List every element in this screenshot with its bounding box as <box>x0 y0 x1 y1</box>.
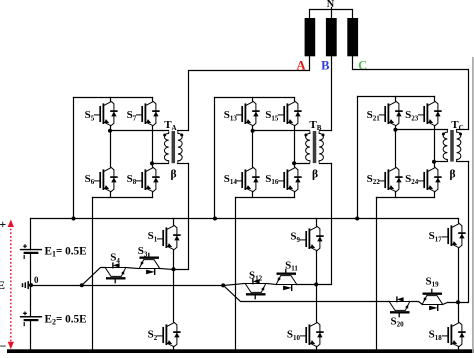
wire cell A bottom rail <box>93 197 153 199</box>
transistor S12 <box>245 279 266 299</box>
svg-text:S15: S15 <box>265 109 279 122</box>
svg-text:S14: S14 <box>224 173 238 186</box>
wire phase A to transformer TA secondary <box>189 57 310 131</box>
wire leg1 lower <box>173 270 175 322</box>
wire cell B positive rail <box>215 97 295 99</box>
wire TB secondary bottom to leg2 midpoint <box>317 164 332 285</box>
wire leg2 mid stub <box>316 251 318 285</box>
transistor S22 <box>380 167 402 192</box>
transformer TC secondary winding <box>457 131 461 161</box>
wire cell A left leg top stub <box>110 98 112 101</box>
transformer TC secondary polarity dot <box>459 133 462 136</box>
svg-text:S20: S20 <box>390 315 404 328</box>
wire node0 to S20 (diagonal+run) <box>224 286 390 302</box>
wire TC secondary top lead <box>457 129 469 131</box>
junction cell B on DC rail <box>213 217 217 221</box>
wire leg3 bottom stub <box>458 347 460 351</box>
wire DC left bus upper <box>30 219 32 250</box>
wire cell C bottom rail <box>377 197 435 199</box>
wire neutral bus <box>310 8 353 19</box>
transistor S19 <box>422 289 443 310</box>
wire cell C right leg middle <box>434 127 436 167</box>
wire cell C negative return to bottom bus <box>376 198 378 350</box>
svg-text:S9: S9 <box>290 231 300 244</box>
svg-text:S3: S3 <box>138 245 148 258</box>
svg-text:S7: S7 <box>127 109 137 122</box>
junction S4 branch <box>80 283 84 287</box>
transistor S5 <box>95 101 117 126</box>
wire TB secondary bottom lead <box>320 163 332 165</box>
transistor S21 <box>380 101 402 126</box>
junction leg3 midpoint <box>456 300 460 304</box>
transistor S3 <box>139 253 160 274</box>
wire cell B negative return to bottom bus <box>235 198 237 350</box>
transistor S16 <box>279 167 301 192</box>
wire leg2 lower <box>316 285 318 322</box>
wire cell C left leg bottom stub <box>395 193 397 198</box>
svg-text:TA: TA <box>164 119 176 132</box>
wire cell B bottom rail <box>236 197 295 199</box>
junction cell A left midpoint <box>108 129 112 133</box>
wire leg1 top stub <box>173 219 175 225</box>
capacitor E1 <box>21 245 42 259</box>
ground symbol node 0 <box>23 282 32 288</box>
svg-text:S16: S16 <box>265 173 279 186</box>
transformer TC primary winding <box>443 131 447 161</box>
transistor S2 <box>158 322 180 347</box>
wire cell A midpoint to primary top <box>111 130 169 132</box>
transistor S17 <box>443 223 465 248</box>
junction cell B left midpoint <box>251 129 255 133</box>
svg-text:S17: S17 <box>429 230 443 243</box>
wire leg2 bottom stub <box>316 347 318 351</box>
transistor S7 <box>137 101 159 126</box>
transistor S1 <box>158 225 180 250</box>
transistor S8 <box>137 167 159 192</box>
wire TC secondary bottom lead <box>457 161 469 163</box>
transformer TB primary winding <box>306 132 310 162</box>
wire TA secondary top lead <box>178 130 189 132</box>
svg-text:N: N <box>327 0 335 10</box>
svg-text:β: β <box>312 169 318 181</box>
wire cell A left leg bottom stub <box>110 193 112 198</box>
svg-text:S21: S21 <box>367 109 381 122</box>
wire S12 to S11 <box>267 284 277 285</box>
transformer TA primary winding <box>164 132 168 162</box>
wire DC left bus lower <box>30 321 32 351</box>
wire cell C left leg top stub <box>395 97 397 101</box>
junction cell A on DC rail <box>72 217 76 221</box>
svg-text:S22: S22 <box>367 173 381 186</box>
svg-text:S19: S19 <box>425 275 439 288</box>
transformer TB secondary polarity dot <box>322 134 325 137</box>
load winding phase A <box>305 18 316 56</box>
transistor S4 <box>105 263 126 283</box>
figure border (right, gray) <box>472 57 474 353</box>
svg-text:TC: TC <box>451 119 463 132</box>
wire S4 to S3 <box>126 268 139 269</box>
wire TB secondary top lead <box>320 130 332 132</box>
wire cell A primary bottom <box>153 163 169 165</box>
wire cell A right leg bottom stub <box>152 193 154 198</box>
wire cell B right leg bottom stub <box>294 193 296 198</box>
wire cell A right leg top stub <box>152 98 154 101</box>
wire cell C midpoint to primary top <box>396 129 448 131</box>
wire S3 to leg1 midpoint <box>160 269 174 270</box>
wire S19 to leg3 midpoint <box>443 303 459 305</box>
wire cell B right leg middle <box>294 127 296 167</box>
junction cell B right leg primary bottom <box>292 161 296 165</box>
junction cell C right leg primary bottom <box>432 160 436 164</box>
junction cell C on DC rail <box>355 217 359 221</box>
wire cell A positive rail <box>74 97 153 99</box>
svg-text:S10: S10 <box>287 329 301 342</box>
transformer TB secondary winding <box>319 132 323 162</box>
wire DC left bus middle <box>30 253 32 317</box>
svg-text:S18: S18 <box>429 329 443 342</box>
transistor S10 <box>301 322 323 347</box>
wire node0 to S4 (diagonal) <box>82 268 105 286</box>
load winding phase B <box>326 18 337 56</box>
junction S12 branch <box>221 283 225 287</box>
transistor S6 <box>95 167 117 192</box>
wire cell A left edge to DC bus <box>73 98 75 219</box>
transformer TB primary polarity dot <box>304 134 307 137</box>
transistor S18 <box>443 322 465 347</box>
wire cell C right leg top stub <box>434 97 436 101</box>
svg-text:S12: S12 <box>249 269 263 282</box>
wire cell A right leg middle <box>152 127 154 167</box>
transformer TA primary polarity dot <box>163 134 166 137</box>
wire leg3 mid stub <box>458 249 460 303</box>
wire leg3 lower <box>458 303 460 322</box>
junction cell A right leg primary bottom <box>150 161 154 165</box>
transistor S15 <box>279 101 301 126</box>
svg-text:E: E <box>0 278 5 292</box>
transistor S24 <box>419 167 441 192</box>
wire cell C left leg middle <box>395 127 397 167</box>
svg-text:S23: S23 <box>405 109 419 122</box>
wire cell C left edge to DC bus <box>357 97 359 219</box>
wire DC positive rail <box>31 218 459 220</box>
wire cell B left leg bottom stub <box>252 193 254 198</box>
svg-text:S8: S8 <box>127 173 137 186</box>
junction leg2 midpoint <box>314 282 318 286</box>
svg-text:β: β <box>449 169 455 181</box>
wire TC secondary bottom to leg3 midpoint <box>459 162 469 303</box>
svg-text:S5: S5 <box>85 109 95 122</box>
wire DC negative bus (bottom) <box>7 349 474 353</box>
svg-text:+: + <box>0 217 6 231</box>
load winding phase C <box>347 18 358 56</box>
wire cell B left leg top stub <box>252 98 254 101</box>
svg-text:S6: S6 <box>85 173 95 186</box>
svg-text:E1= 0.5E: E1= 0.5E <box>45 246 87 259</box>
transistor S13 <box>237 101 259 126</box>
wire leg2 top stub <box>316 219 318 226</box>
svg-text:S1: S1 <box>148 230 158 243</box>
svg-text:S11: S11 <box>285 259 298 272</box>
capacitor E2 <box>21 312 42 326</box>
svg-text:B: B <box>321 58 329 72</box>
svg-text:−: − <box>0 339 7 353</box>
transformer TC primary polarity dot <box>442 133 445 136</box>
transistor S9 <box>301 226 323 251</box>
wire leg1 mid stub <box>173 251 175 270</box>
wire cell C primary bottom <box>435 161 448 163</box>
junction cell C left midpoint <box>393 128 397 132</box>
wire S20 to S19 <box>410 302 423 305</box>
wire S11 to leg2 midpoint <box>298 284 317 286</box>
svg-text:β: β <box>170 169 176 181</box>
measurement arrow E (red dotted) <box>8 220 14 350</box>
wire cell B primary bottom <box>295 163 310 165</box>
wire cell B left edge to DC bus <box>214 98 216 219</box>
transistor S11 <box>276 269 297 290</box>
transformer TA core <box>172 131 176 163</box>
svg-text:S4: S4 <box>110 252 120 265</box>
wire cell B midpoint to primary top <box>253 130 310 132</box>
wire cell A left leg middle <box>110 127 112 167</box>
svg-text:TB: TB <box>309 119 321 132</box>
wire leg1 bottom stub <box>173 347 175 351</box>
wire node0 to S12 <box>224 284 245 286</box>
wire cell A negative return to bottom bus <box>92 198 94 350</box>
junction node 0 on bus <box>29 283 33 287</box>
svg-text:0: 0 <box>34 275 39 285</box>
wire cell B left leg middle <box>252 127 254 167</box>
svg-text:E2= 0.5E: E2= 0.5E <box>45 314 87 327</box>
transformer TA secondary polarity dot <box>180 134 183 137</box>
wire TA secondary bottom to leg1 midpoint <box>174 164 189 270</box>
wire phase C to transformer TC secondary <box>353 57 469 130</box>
svg-text:S24: S24 <box>405 173 419 186</box>
transformer TC core <box>450 130 454 162</box>
wire node 0 rail <box>31 285 224 287</box>
junction leg1 midpoint <box>172 267 176 271</box>
wire TA secondary bottom lead <box>178 163 189 165</box>
svg-text:C: C <box>358 58 367 72</box>
wire phase B to transformer TB secondary <box>331 57 333 131</box>
wire cell C positive rail <box>358 96 435 98</box>
wire cell C right leg bottom stub <box>434 193 436 198</box>
transformer TB core <box>313 131 317 163</box>
wire cell B right leg top stub <box>294 98 296 101</box>
transistor S23 <box>419 101 441 126</box>
transistor S14 <box>237 167 259 192</box>
svg-text:S2: S2 <box>148 329 158 342</box>
transformer TA secondary winding <box>178 132 182 162</box>
svg-text:S13: S13 <box>224 109 238 122</box>
wire DC rail corner to S17 <box>458 219 460 223</box>
transistor S20 <box>389 297 410 317</box>
